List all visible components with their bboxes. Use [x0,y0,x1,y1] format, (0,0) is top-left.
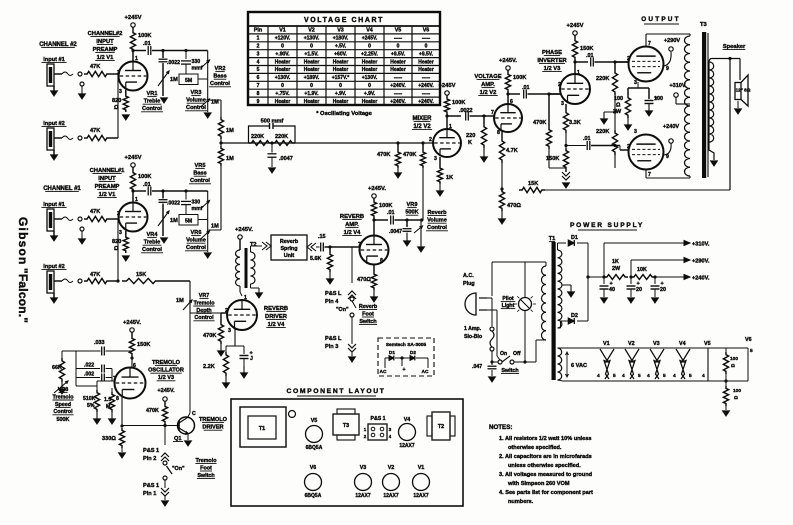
svg-text:.033: .033 [94,340,105,346]
svg-text:1/2 V2: 1/2 V2 [413,124,431,130]
svg-text:+180V.: +180V. [333,36,349,42]
ground (screen bypass cap) [648,104,650,112]
connector chevron (pin 1) [164,480,166,488]
svg-text:12AX7: 12AX7 [399,443,415,449]
wire T2 secondary to spring [250,246,252,252]
svg-text:* Oscillating Voltage: * Oscillating Voltage [316,111,372,117]
tube V4a triode (reverb amp) [360,236,389,265]
svg-text:+2.25V.: +2.25V. [361,51,379,57]
svg-text:4: 4 [257,59,260,65]
svg-text:1/2 V1: 1/2 V1 [97,55,115,61]
svg-text:.022: .022 [84,363,94,369]
svg-text:4. See parts list for compone: 4. See parts list for component part [499,490,593,496]
svg-text:TREMOLO: TREMOLO [152,360,181,366]
resistor 470K (reverb driver grid) [221,312,227,314]
svg-text:V5: V5 [395,28,402,34]
svg-text:Switch: Switch [359,319,376,325]
svg-text:V4: V4 [366,28,373,34]
svg-text:Heater: Heater [275,99,291,105]
svg-text:V1: V1 [279,28,286,34]
svg-text:2: 2 [627,144,630,150]
svg-text:VR2: VR2 [215,66,226,72]
svg-text:P&S 1: P&S 1 [371,416,386,422]
ground (VR9) [420,240,422,248]
svg-text:CHANNEL#1: CHANNEL#1 [90,168,126,174]
wire grid upper [615,61,628,63]
wire Q1 base [122,425,179,427]
resistor 820 ohm (V1b cathode) [125,231,127,235]
svg-text:0: 0 [310,44,313,50]
transformer T1 primary winding [542,266,547,340]
svg-text:5: 5 [257,67,260,73]
svg-text:+290V.: +290V. [692,259,710,265]
svg-text:1: 1 [577,70,580,76]
svg-text:+245V.: +245V. [123,320,141,326]
resistor 100K (reverb amp plate) [371,200,376,218]
power +240V output [655,276,684,278]
resistor 100 ohm 2W (screen dropper) [625,95,630,118]
svg-text:0: 0 [281,83,284,89]
svg-text:1/2 V4: 1/2 V4 [344,230,362,236]
svg-text:INPUT: INPUT [96,39,114,45]
svg-text:Heater: Heater [362,67,378,73]
svg-text:3: 3 [434,156,437,162]
resistor 470K (reverb feed) [421,141,424,144]
svg-text:Control: Control [427,225,447,231]
wire ch1 top to bass network [163,190,208,192]
power +310V output [603,243,605,277]
svg-text:+120V.: +120V. [275,36,291,42]
svg-text:Tremolo: Tremolo [196,458,218,464]
ground (cap 20 out) [654,289,656,297]
svg-text:V5: V5 [704,341,711,347]
svg-text:V2: V2 [628,341,635,347]
svg-text:5M: 5M [185,219,192,225]
tube V1a triode (channel 2 preamp) [119,62,148,91]
svg-text:V1: V1 [603,341,610,347]
terminal pair (input jack switching) [78,72,82,76]
svg-text:150K: 150K [546,156,559,162]
ground (.047) [491,370,493,376]
svg-text:-----: ----- [394,91,403,97]
svg-text:820: 820 [112,239,121,245]
svg-text:1.5: 1.5 [104,397,111,403]
svg-text:Control: Control [53,409,73,415]
tube V2b triode (voltage amp) [494,104,522,132]
svg-text:+245V.: +245V. [368,186,386,192]
svg-text:6: 6 [257,75,260,81]
svg-text:POWER SUPPLY: POWER SUPPLY [570,222,644,229]
capacitor .0022 (mixer out) [447,115,461,117]
svg-text:mmf: mmf [192,66,203,72]
svg-text:+290V: +290V [664,38,681,44]
svg-text:Gibson: Gibson [16,217,30,266]
svg-text:Unit: Unit [284,253,295,259]
svg-text:+9.5V.: +9.5V. [391,51,406,57]
wire rectifier bus [587,243,589,321]
svg-text:Control: Control [186,245,206,251]
svg-text:0: 0 [368,83,371,89]
svg-text:-----: ----- [422,36,431,42]
switch On-Off [492,361,498,363]
svg-text:5: 5 [663,373,666,379]
capacitor .0047 (reverb) [405,218,408,221]
wire V5 plate to transformer [645,34,647,47]
wire fuse to switch [491,351,493,362]
svg-text:6BQ5A: 6BQ5A [305,493,322,499]
tube V2a triode (mixer) [433,129,461,157]
wire Q1 emitter [179,428,188,434]
svg-text:4: 4 [647,373,650,379]
wire plate junction [132,52,134,62]
transformer T2 primary [236,250,241,286]
svg-text:1: 1 [135,56,138,62]
svg-text:20: 20 [660,287,666,293]
tube V1b triode (channel 1 preamp) [119,203,148,232]
svg-text:Input #1: Input #1 [43,202,64,208]
resistor 5M (ch2) [179,74,198,85]
svg-text:Input #2: Input #2 [43,121,64,127]
svg-text:Spring: Spring [280,246,297,252]
svg-text:-----: ----- [422,75,431,81]
ground (pin 1) [164,496,166,500]
wire ch2 top to bass network [163,50,208,52]
svg-text:100: 100 [733,388,741,394]
svg-text:.0022: .0022 [167,201,180,207]
ground (T2 secondary) [250,284,252,288]
resistor 100K (voltage amp plate) [505,72,510,92]
svg-text:+1.9V.: +1.9V. [304,91,319,97]
svg-text:Control: Control [190,178,210,184]
resistor 100K (mixer plate) [444,97,449,114]
svg-text:330: 330 [192,59,201,65]
svg-text:+130V.: +130V. [304,36,320,42]
resistor 470K (phase inv grid) [546,127,551,149]
svg-text:+245V.: +245V. [235,227,253,233]
svg-text:2W: 2W [613,109,622,115]
wire Q1 collector [179,418,188,424]
wire primary top [491,262,493,296]
svg-text:Slo-Blo: Slo-Blo [464,334,482,340]
svg-text:.15: .15 [318,234,326,240]
svg-text:Volume: Volume [427,218,447,224]
heater rail box [563,347,748,349]
svg-text:PHASE: PHASE [542,50,562,56]
svg-text:+240V.: +240V. [390,99,406,105]
svg-text:Control: Control [142,247,162,253]
svg-text:470K: 470K [203,333,216,339]
svg-text:Control: Control [186,105,206,111]
resistor 1M (ch1 volume to bus) [218,146,223,166]
svg-text:-----: ----- [394,36,403,42]
svg-text:P&S L: P&S L [325,336,342,342]
svg-text:Heater: Heater [304,67,320,73]
phase shift network wires [75,351,77,386]
capacitor .01 (reverb out) [374,219,388,221]
svg-text:with Simpson 260 VOM: with Simpson 260 VOM [507,481,570,487]
ground (speaker) [737,101,739,108]
svg-text:.01: .01 [143,41,151,47]
wire switch to T1 primary [514,361,536,363]
svg-text:47K: 47K [90,128,100,134]
svg-text:D2: D2 [410,350,416,356]
svg-text:1M: 1M [176,298,184,304]
wire V6 plate to transformer [645,170,647,179]
svg-text:Speed: Speed [55,402,71,408]
ground (reverb cathode) [373,290,375,298]
ground (VR6 bottom) [204,253,211,258]
svg-text:P&S 1: P&S 1 [143,448,159,454]
resistor 3.3K (phase inv cathode) [565,104,567,110]
svg-text:Heater: Heater [275,59,291,65]
speaker symbol [735,83,741,100]
resistor 470 ohm (reverb amp cathode) [373,265,375,273]
potentiometer VR3 volume (ch2) [207,95,209,112]
svg-text:PREAMP: PREAMP [95,184,120,190]
resistor 5M (ch1) [179,215,198,226]
svg-text:4: 4 [622,373,625,379]
potentiometer 1M VR4 treble (ch1) [158,211,169,226]
connector chevron (pin 4) [351,247,353,283]
svg-text:V3: V3 [337,28,344,34]
resistor 220K (upper grid) [613,60,616,63]
svg-text:15K: 15K [528,181,538,187]
svg-text:5: 5 [613,373,616,379]
capacitor 20 (filter mid) [630,277,632,284]
svg-text:+245V: +245V [567,23,584,29]
wire lower grid node [614,145,616,147]
svg-text:7: 7 [648,41,651,47]
svg-text:47K: 47K [90,272,100,278]
capacitor 100 (screen bypass) [648,95,650,99]
svg-text:otherwise specified.: otherwise specified. [508,445,562,451]
ground (VR3 bottom) [204,113,211,118]
svg-text:4: 4 [597,373,600,379]
svg-text:VR6: VR6 [191,230,202,236]
svg-text:mmf: mmf [192,206,203,212]
svg-text:2.2K: 2.2K [203,364,215,370]
svg-text:Semtech SA-3005: Semtech SA-3005 [386,342,427,348]
svg-text:1K: 1K [446,175,453,181]
svg-text:Switch: Switch [197,473,214,479]
svg-text:3: 3 [561,101,564,107]
svg-text:P&S L: P&S L [325,291,342,297]
resistor 150K (phase inv plate) [572,38,577,60]
svg-text:Heater: Heater [304,99,320,105]
ground (470 ohm) [501,211,503,220]
table VOLTAGE CHART [248,12,440,105]
svg-text:Light: Light [502,303,515,309]
svg-text:Heater: Heater [333,59,349,65]
svg-text:"On": "On" [336,307,349,313]
ground (220K) [483,148,485,158]
resistor 150K (tremolo plate) [129,336,134,356]
svg-text:D1: D1 [389,350,395,356]
capacitor cathode bypass (driver) [235,345,244,347]
svg-text:8: 8 [116,396,119,402]
svg-text:100K: 100K [513,75,526,81]
resistor 100K (V1b plate) [130,170,135,192]
svg-text:On: On [500,351,507,357]
svg-text:3.3K: 3.3K [569,120,581,126]
svg-text:47K: 47K [90,64,100,70]
svg-text:VR5: VR5 [195,163,206,169]
svg-text:Reverb: Reverb [428,210,448,216]
potentiometer VR6 volume (ch1) [207,235,209,252]
svg-text:.047: .047 [472,364,482,370]
svg-text:2: 2 [429,137,432,143]
transformer T1 HV secondary [558,250,562,328]
svg-text:1: 1 [135,197,138,203]
svg-text:5M: 5M [185,78,192,84]
svg-text:100: 100 [614,96,623,102]
ground (cap 20 mid) [630,289,632,297]
svg-text:9: 9 [666,66,669,72]
ground (VR4 bottom) [161,238,168,243]
svg-text:6: 6 [510,99,513,105]
ground (driver grid) [220,344,222,352]
wires SA-3005 [385,357,389,359]
svg-text:V6: V6 [310,465,317,471]
connector chevron (pin 2) [164,427,166,445]
svg-text:+310V.: +310V. [692,242,710,248]
svg-text:+60V.: +60V. [334,51,347,57]
svg-text:1/2 V3: 1/2 V3 [158,375,174,381]
svg-text:Volume: Volume [186,98,206,104]
svg-text:V2: V2 [308,28,315,34]
svg-text:P&S 1: P&S 1 [143,483,159,489]
ground (driver bypass cap) [243,359,245,366]
resistor 150K (tail) [563,148,568,170]
svg-text:2. All capacitors are in micr: 2. All capacitors are in microfarads [499,454,592,460]
svg-text:DRIVER: DRIVER [202,425,223,431]
svg-text:100: 100 [654,96,663,102]
resistor 100 ohm (hum balance lower) [724,379,727,382]
svg-text:Reverb: Reverb [280,239,299,245]
component T3 (layout) [333,414,359,435]
svg-text:2: 2 [257,44,260,50]
svg-text:1M: 1M [170,77,178,83]
svg-text:+245V.: +245V. [499,58,517,64]
wire plug to fuse [487,297,492,299]
svg-text:V5: V5 [311,418,318,424]
svg-text:Pin 1: Pin 1 [143,491,156,497]
potentiometer VR5 bass (ch1) [207,191,209,235]
transformer T1 heater winding [558,348,562,380]
ground (2.2K) [225,376,227,384]
ground (input 2 jack) [51,155,58,160]
transformer T2 core [245,248,248,288]
ground (.0047 reverb) [406,233,408,243]
ground (Q1 emitter) [185,441,192,446]
svg-text:3: 3 [119,230,122,236]
ground (510K) [96,412,98,420]
svg-text:+240V: +240V [663,124,680,130]
svg-text:5.6K: 5.6K [310,256,321,262]
resistor 4.7K (voltage amp cathode) [501,131,503,138]
ground (1.5M) [111,412,113,420]
svg-text:330: 330 [192,200,201,206]
svg-text:OSCILLATOR: OSCILLATOR [148,368,184,374]
svg-text:12" 8Ω: 12" 8Ω [736,88,751,93]
svg-text:"On": "On" [172,466,185,472]
svg-text:INPUT: INPUT [98,176,116,182]
resistor 1K (mixer cathode) [439,157,441,166]
svg-text:V3: V3 [360,465,367,471]
capacitor treble (ch2) to VR1 [162,51,164,59]
hole (layout) [289,411,296,418]
svg-text:Input #1: Input #1 [43,57,64,63]
svg-text:Heater: Heater [362,59,378,65]
svg-text:510K: 510K [83,396,96,402]
resistor 1M (ch2 volume to bus) [220,100,222,117]
svg-text:OUTPUT: OUTPUT [641,16,680,23]
svg-text:Ω: Ω [734,395,738,401]
svg-text:+245V.: +245V. [157,388,175,394]
svg-text:VR7: VR7 [199,293,210,299]
svg-text:1: 1 [257,36,260,42]
svg-text:.0047: .0047 [279,156,293,162]
svg-text:0: 0 [397,44,400,50]
svg-text:Heater: Heater [390,59,406,65]
svg-text:REVERB: REVERB [340,214,364,220]
svg-text:Pin: Pin [254,28,262,34]
ground (66K) [61,382,63,390]
ground (hum balance) [725,406,727,410]
potentiometer VR8 speed [54,381,68,393]
svg-text:10K: 10K [637,267,647,273]
resistor 220K (right) [272,141,295,146]
ground (330 ohm) [119,453,126,458]
svg-text:.01: .01 [143,182,151,188]
svg-text:500K: 500K [57,417,70,423]
svg-text:3: 3 [119,89,122,95]
svg-text:470K: 470K [146,408,159,414]
svg-text:V6: V6 [745,337,752,343]
svg-text:Treble: Treble [144,240,160,246]
capacitor .01 (ch2 coupling) [133,50,146,52]
svg-text:4: 4 [702,373,705,379]
svg-text:1M: 1M [226,128,234,134]
svg-text:COMPONENT LAYOUT: COMPONENT LAYOUT [287,388,386,395]
svg-text:AC: AC [422,369,429,375]
svg-text:T2: T2 [438,424,444,430]
svg-text:0: 0 [281,44,284,50]
svg-text:+1.5V.: +1.5V. [304,51,319,57]
potentiometer VR2 bass (ch2) [207,51,209,96]
svg-text:100: 100 [730,356,738,362]
svg-text:7: 7 [491,110,494,116]
ground (mixer cathode) [439,184,441,192]
svg-text:470Ω: 470Ω [357,277,371,283]
svg-text:Plug: Plug [463,281,475,287]
svg-text:40: 40 [609,287,615,293]
svg-text:7: 7 [648,172,651,178]
svg-text:12AX7: 12AX7 [355,493,371,499]
svg-text:330Ω: 330Ω [102,436,116,442]
svg-text:+240V.: +240V. [692,276,710,282]
svg-text:V2: V2 [388,465,395,471]
svg-text:Bass: Bass [213,74,226,80]
potentiometer VR9 reverb volume [420,220,422,240]
svg-text:1/2 V4: 1/2 V4 [268,322,286,328]
svg-text:V4: V4 [679,341,686,347]
svg-text:1M: 1M [211,224,219,230]
svg-text:+157V.*: +157V.* [332,75,350,81]
svg-text:220: 220 [466,133,475,139]
svg-text:VR1: VR1 [147,91,158,97]
capacitor treble (ch1) to VR4 [162,191,164,199]
